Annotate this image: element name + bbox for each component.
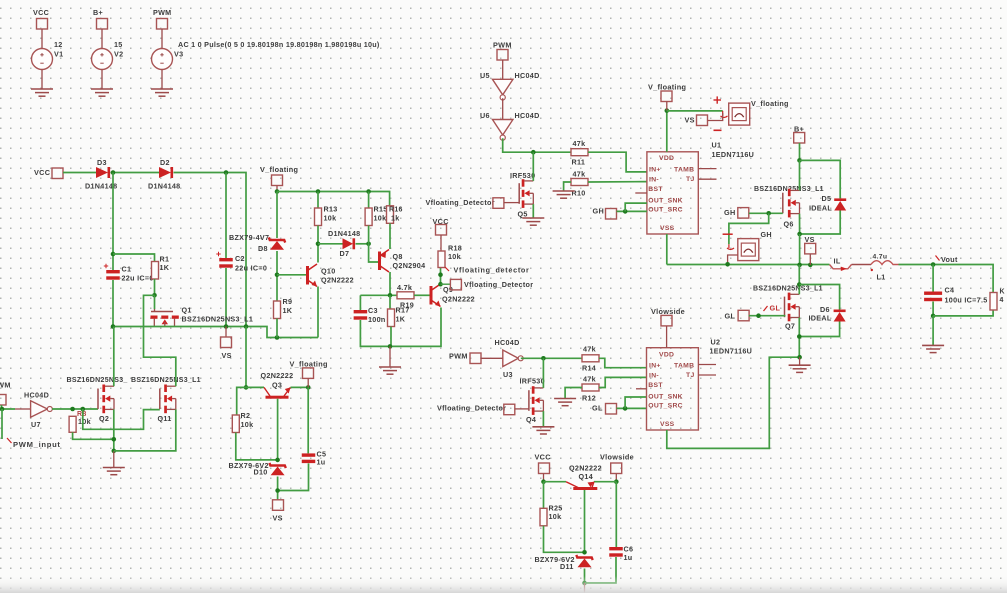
wire Q6 source down: [799, 214, 801, 234]
svg-text:V_floating: V_floating: [648, 83, 686, 92]
junction PWM_input: [0, 407, 4, 412]
net label Vfloating_Detector low: [437, 404, 506, 413]
phase mark L1: [871, 269, 873, 271]
svg-text:10k: 10k: [374, 214, 387, 223]
ground under V2: [91, 89, 113, 96]
wire to C1 top: [112, 173, 114, 271]
name R1: [160, 255, 170, 264]
wire R25 bottom: [544, 526, 585, 553]
name Q2: [99, 414, 109, 423]
ground at output: [922, 345, 944, 352]
wire Q3 base down: [277, 399, 279, 460]
name R9: [283, 297, 293, 306]
transistor Q2: [98, 385, 114, 414]
wire load bottom: [933, 310, 993, 316]
svg-text:GL: GL: [592, 404, 603, 413]
svg-text:R15: R15: [374, 205, 388, 214]
wire C3 top: [359, 295, 361, 310]
svg-text:V_floating: V_floating: [290, 360, 328, 369]
junction Q3 base / R2 / D10: [275, 458, 280, 463]
pin BST U2: [648, 382, 663, 389]
pin OUT_SRC U2: [648, 403, 683, 410]
supply square VS: [221, 337, 232, 348]
junction Vlowside low / C6 / Q14: [614, 479, 619, 484]
svg-text:10k: 10k: [78, 417, 91, 426]
value of R14: [583, 345, 596, 354]
capacitor C6: [609, 547, 623, 557]
ground mid: [379, 367, 401, 374]
svg-text:GL: GL: [770, 304, 781, 313]
svg-text:L1: L1: [877, 273, 886, 282]
value of Q9: [442, 295, 475, 304]
value of D7: [328, 229, 360, 238]
svg-text:V2: V2: [114, 50, 123, 59]
supply square VCC: [37, 19, 48, 30]
svg-text:R12: R12: [582, 394, 596, 403]
junction B+ / D5 / Q6 drain: [797, 158, 802, 163]
wire U1 VDD up: [666, 111, 668, 152]
ground under Q5: [522, 218, 544, 225]
wire Q4 source: [542, 411, 544, 427]
svg-text:TAMB: TAMB: [674, 167, 694, 174]
junction rail / R15: [366, 189, 371, 194]
wire R17 top: [389, 295, 391, 309]
svg-text:Q2N2222: Q2N2222: [321, 276, 354, 285]
wire Q5 drain: [532, 152, 534, 181]
svg-text:R14: R14: [582, 364, 596, 373]
svg-text:V3: V3: [174, 50, 183, 59]
wire V_floating stub: [276, 186, 278, 192]
value of Q4: [520, 377, 545, 386]
net label V_floating top: [648, 83, 686, 92]
wire Q11 drain to R1 node: [144, 295, 176, 386]
value of D6: [809, 314, 832, 323]
value of Q14: [569, 464, 602, 473]
junction GL net label: [756, 313, 761, 318]
supply square PWM left: [0, 395, 6, 406]
svg-text:D1N4148: D1N4148: [328, 229, 360, 238]
wire GH to Q6 gate: [749, 212, 783, 214]
wire to R1 top: [113, 254, 155, 262]
svg-text:TJ: TJ: [686, 372, 695, 379]
name RL load: [1000, 289, 1005, 296]
wire to ground: [389, 346, 391, 367]
svg-text:VS: VS: [273, 514, 283, 523]
svg-text:HC04D: HC04D: [24, 391, 49, 400]
capacitor C4: [924, 292, 942, 302]
svg-text:D3: D3: [97, 158, 107, 167]
name Q6: [784, 220, 794, 229]
wire V_floating stub mid: [307, 378, 309, 387]
name D3: [97, 158, 107, 167]
svg-text:1K: 1K: [160, 263, 170, 272]
name Q7: [785, 322, 795, 331]
value of R17: [396, 315, 406, 324]
name Q4: [526, 415, 536, 424]
svg-text:D11: D11: [560, 562, 574, 571]
wire Q9 collector up: [440, 268, 442, 285]
wire to D6 cathode: [799, 285, 839, 310]
wire D7 cathode: [356, 243, 369, 245]
svg-text:Q7: Q7: [785, 322, 795, 331]
junction Vfloating_detector label: [438, 272, 443, 277]
wire D6 anode: [799, 322, 839, 337]
value of Q1: [182, 315, 254, 324]
value of U5: [515, 71, 540, 80]
value of R16: [391, 214, 400, 223]
value of D8: [229, 233, 269, 242]
wire to Q10 base: [277, 274, 306, 276]
wire C6 bottom: [585, 557, 617, 583]
svg-text:100n: 100n: [368, 315, 386, 324]
svg-text:IDEAL: IDEAL: [809, 314, 832, 323]
svg-text:47k: 47k: [583, 345, 596, 354]
ground under Q4: [532, 427, 554, 434]
name C1: [122, 265, 132, 274]
pin IN- U1: [649, 177, 659, 184]
transistor Q5: [519, 179, 533, 208]
junction B- ground: [797, 355, 802, 360]
label square VS at probe: [697, 115, 708, 126]
svg-text:D5: D5: [822, 194, 832, 203]
value of R19: [397, 283, 412, 292]
junction U6 out / Q5 drain: [531, 150, 536, 155]
value of C3: [368, 315, 386, 324]
label square GH: [606, 209, 617, 220]
wire to D7 anode: [318, 243, 343, 245]
name of probe IL: [834, 257, 841, 266]
junction U3 out / Q4 drain: [541, 356, 546, 361]
svg-text:OUT_SRC: OUT_SRC: [648, 207, 683, 214]
name Q10: [321, 267, 336, 276]
wire R13 to Q10 collector: [317, 226, 319, 263]
name R14: [582, 364, 596, 373]
wire D5 anode to phase: [800, 211, 841, 235]
net label VCC mid: [433, 217, 450, 226]
svg-text:VDD: VDD: [659, 155, 674, 162]
name Q14: [579, 472, 594, 481]
ground B-: [789, 365, 811, 372]
wire Vfloating_Detector label to Q9: [441, 283, 451, 285]
svg-text:PWM: PWM: [449, 352, 468, 361]
junction Q6 source / D5: [797, 232, 802, 237]
supply label B+: [93, 8, 103, 17]
svg-text:VSS: VSS: [660, 421, 675, 428]
value of D5: [809, 204, 832, 213]
svg-text:10k: 10k: [324, 214, 337, 223]
name D2: [160, 158, 170, 167]
pin IN+ U1: [649, 167, 661, 174]
wire V_floating stub: [666, 102, 668, 111]
supply square VS low: [273, 500, 284, 511]
net label V_floating mid: [290, 360, 328, 369]
name U7: [31, 420, 41, 429]
supply label VCC: [33, 8, 49, 17]
pin TJ U1: [686, 176, 695, 183]
svg-text:Vfloating_Detector: Vfloating_Detector: [464, 280, 533, 289]
name V1: [54, 50, 63, 59]
junction Q7 source / D6: [797, 334, 802, 339]
value of C1: [122, 274, 154, 283]
value of Q3: [261, 371, 294, 380]
svg-text:Q10: Q10: [321, 267, 336, 276]
svg-text:GH: GH: [593, 207, 605, 216]
wire VCC to R18: [440, 235, 442, 251]
net label PWM left: [0, 381, 11, 390]
net tick GL: [764, 306, 768, 311]
zener D11: [576, 555, 592, 567]
svg-text:C1: C1: [122, 265, 132, 274]
wire R10 to U1 IN-: [588, 181, 647, 183]
wire V2 to ground: [101, 70, 103, 90]
svg-text:BZX79-4V7: BZX79-4V7: [229, 233, 269, 242]
svg-text:U3: U3: [503, 370, 513, 379]
junction VCC low / R25 / Q14: [541, 479, 546, 484]
current probe IL: [830, 265, 852, 272]
name D7: [340, 249, 350, 258]
wire VCC to D3: [63, 172, 96, 174]
wire U2 VSS to B- node: [667, 357, 800, 448]
junction GH / OUT_SNK: [623, 209, 628, 214]
wire Q3 emitter to V_floating: [291, 386, 309, 388]
wire U7 out to Q2 gate: [52, 408, 98, 410]
resistor RL load: [990, 293, 997, 311]
svg-text:D10: D10: [254, 468, 268, 477]
svg-text:1k: 1k: [391, 214, 400, 223]
pin TJ U2: [686, 372, 695, 379]
svg-text:Q14: Q14: [579, 472, 594, 481]
svg-text:V_floating: V_floating: [260, 165, 298, 174]
wire C2 bottom to rail: [225, 268, 227, 327]
svg-text:Q2: Q2: [99, 414, 109, 423]
junction Q11 gate branch: [81, 407, 86, 412]
resistor R9: [274, 301, 281, 319]
svg-text:IL: IL: [834, 257, 841, 266]
name Q8: [393, 252, 403, 261]
value of U6: [515, 111, 540, 120]
wire VS stub right: [809, 254, 811, 265]
value of U2: [710, 347, 753, 356]
name Q11: [158, 414, 172, 423]
name U2: [711, 338, 721, 347]
junction Q7 drain / D6: [797, 282, 802, 287]
label square Vfloating_Detector low: [504, 404, 515, 415]
svg-text:Q11: Q11: [158, 414, 172, 423]
ground under Q2 Q11: [103, 468, 125, 475]
capacitor C5: [302, 453, 316, 463]
wire to Q8 base: [369, 244, 378, 262]
net label VS low: [273, 514, 283, 523]
junction V_floating / C5: [306, 385, 311, 390]
junction D10 / C5: [275, 488, 280, 493]
resistor R15: [365, 208, 372, 226]
junction Q2 source / R8: [112, 437, 117, 442]
net label GH: [593, 207, 605, 216]
label square GL mid: [606, 404, 617, 415]
pin stub TJ U1: [698, 178, 716, 180]
probe GH minus tick: [723, 233, 733, 235]
svg-text:PWM: PWM: [153, 8, 171, 17]
value of C4: [945, 296, 988, 305]
wire to OUT_SNK: [625, 203, 647, 211]
junction D7 / R15: [366, 242, 371, 247]
transistor Q6: [783, 189, 800, 218]
svg-text:GH: GH: [761, 230, 772, 239]
wire R12 to ground: [565, 388, 582, 399]
pin stub TAMB U1: [698, 168, 716, 170]
wire Vlowside to U2 VDD: [666, 326, 668, 348]
wire U1 VSS down: [666, 234, 668, 265]
name C4: [945, 286, 955, 295]
value of R8: [78, 417, 91, 426]
svg-text:15: 15: [114, 40, 123, 49]
svg-text:4.7u: 4.7u: [873, 254, 888, 261]
wire Q10 emitter down: [317, 287, 319, 338]
diode D7: [343, 238, 356, 249]
svg-text:IDEAL: IDEAL: [809, 204, 832, 213]
value of V3: [178, 40, 380, 49]
name R13: [324, 205, 338, 214]
junction R1 / Q1 gate / Q11 drain: [152, 293, 157, 298]
svg-text:Q2N2904: Q2N2904: [393, 261, 426, 270]
value of R2: [241, 420, 254, 429]
svg-text:Q8: Q8: [393, 252, 403, 261]
supply square PWM top: [497, 50, 508, 61]
svg-text:Vlowside: Vlowside: [651, 307, 685, 316]
svg-text:VS: VS: [222, 351, 232, 360]
value of R12: [583, 375, 596, 384]
resistor R13: [315, 208, 322, 226]
name R2: [241, 411, 251, 420]
wire Q6 drain up: [799, 160, 801, 190]
supply square Vlowside low: [611, 463, 622, 474]
value of D10: [229, 461, 269, 470]
pin OUT_SRC U1: [648, 207, 683, 214]
svg-text:1EDN7116U: 1EDN7116U: [712, 150, 755, 159]
wire R16 to Q8 emitter: [389, 223, 391, 249]
inverter U7: [31, 401, 53, 418]
svg-text:Q2N2222: Q2N2222: [442, 295, 475, 304]
svg-text:10k: 10k: [549, 512, 562, 521]
svg-text:AC 1 0 Pulse(0 5 0 19.80198n 1: AC 1 0 Pulse(0 5 0 19.80198n 19.80198n 1…: [178, 40, 380, 49]
svg-text:GL: GL: [725, 312, 736, 321]
name V2: [114, 50, 123, 59]
name D8: [258, 244, 268, 253]
supply square PWM: [157, 19, 168, 30]
svg-text:Vout: Vout: [941, 255, 958, 264]
net label Vout: [941, 255, 958, 264]
probe V_floating: [729, 103, 750, 125]
svg-text:10k: 10k: [448, 252, 461, 261]
wire D3 to D2: [111, 172, 160, 174]
probe GH: [738, 239, 759, 261]
svg-text:47k: 47k: [583, 375, 596, 384]
svg-text:BSZ16DN25NS3_: BSZ16DN25NS3_: [67, 377, 128, 384]
wire Q1 gate: [154, 295, 156, 309]
junction Q2 source / Q11 source: [112, 449, 117, 454]
value of Q6: [754, 186, 824, 193]
svg-text:R16: R16: [389, 207, 403, 214]
diode D5: [834, 198, 846, 210]
supply square V_floating mid: [303, 368, 314, 379]
wire 4.7k to Q9 base: [414, 294, 430, 296]
wire Q4 drain: [542, 358, 544, 388]
svg-text:VS: VS: [685, 116, 695, 125]
net label VS at probe: [685, 116, 695, 125]
junction R13 / D7: [316, 242, 321, 247]
wire V1 to ground: [41, 70, 43, 90]
wire to ground left: [113, 451, 115, 468]
pin TAMB U2: [674, 363, 694, 370]
name Q1: [182, 306, 192, 315]
junction rail / Q2 drain: [111, 324, 116, 329]
svg-text:U5: U5: [480, 71, 490, 80]
svg-text:1EDN7116U: 1EDN7116U: [710, 347, 753, 356]
wire label to Q5 gate: [504, 202, 519, 204]
svg-text:10k: 10k: [241, 420, 254, 429]
junction rail / C2: [224, 170, 229, 175]
svg-text:BST: BST: [648, 186, 663, 193]
net label GL red: [770, 304, 781, 313]
wire Q8 collector down: [389, 272, 391, 295]
wire to Q14 collector: [544, 481, 567, 483]
supply square Vlowside: [661, 315, 672, 326]
junction VCC rail / C1: [111, 170, 116, 175]
wire to B- ground: [799, 357, 801, 365]
value of C5: [317, 458, 326, 467]
wire to C5 top: [307, 387, 309, 453]
name D10: [254, 468, 268, 477]
wire GL to Q7 gate: [749, 315, 786, 317]
net label GL mid: [592, 404, 603, 413]
svg-text:IN-: IN-: [649, 177, 659, 184]
wire phase rail: [667, 264, 830, 266]
minus sign probe: [714, 129, 722, 131]
pin stub BST U1: [635, 192, 647, 194]
capacitor C2: [216, 252, 232, 268]
value of U3: [495, 338, 520, 347]
svg-text:Q2N2222: Q2N2222: [261, 371, 294, 380]
value of Q5: [510, 171, 535, 180]
junction phase / VS: [808, 263, 813, 268]
value of R13: [324, 214, 337, 223]
ground at R10: [553, 191, 575, 198]
name D5: [822, 194, 832, 203]
supply square B+ right: [794, 133, 805, 144]
wire Q2 source down: [113, 409, 115, 451]
value of Q10: [321, 276, 354, 285]
wire Q2 drain up: [113, 327, 115, 387]
svg-text:BSZ16DN25NS3_L1: BSZ16DN25NS3_L1: [131, 377, 201, 384]
resistor R25: [540, 508, 547, 526]
wire D8 to R9: [276, 251, 278, 301]
value of R10: [573, 170, 586, 179]
svg-text:Q3: Q3: [272, 381, 282, 390]
wire R14 to U2 IN+: [599, 358, 647, 367]
junction GH probe: [766, 211, 771, 216]
value of C6: [624, 553, 633, 562]
wire to R2 top: [237, 387, 246, 415]
transistor Q3: [264, 387, 291, 398]
svg-text:V1: V1: [54, 50, 63, 59]
capacitor C3: [354, 310, 368, 320]
ground under V3: [151, 89, 173, 96]
name Q9: [443, 285, 453, 294]
svg-text:Vfloating_detector: Vfloating_detector: [454, 266, 530, 275]
net label Vfloating_Detector mid: [464, 280, 533, 289]
wire to OUT_SNK U2: [625, 397, 646, 408]
svg-text:1K: 1K: [283, 306, 293, 315]
